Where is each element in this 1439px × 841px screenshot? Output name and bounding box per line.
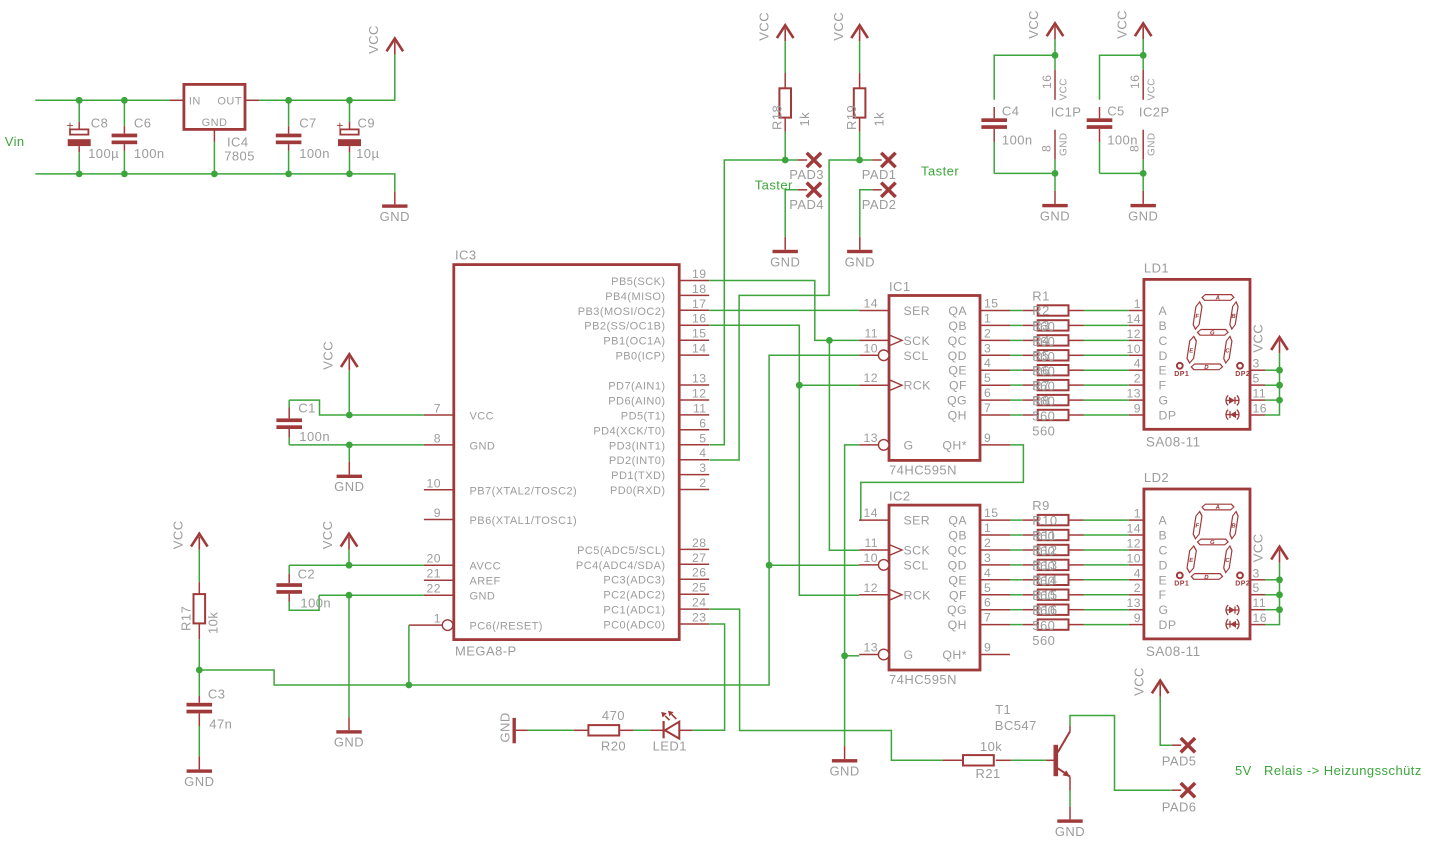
svg-text:18: 18 bbox=[692, 282, 706, 296]
junction C8 top bbox=[76, 97, 83, 104]
svg-text:11: 11 bbox=[1253, 387, 1267, 401]
svg-text:IC3: IC3 bbox=[455, 248, 477, 263]
IC2 pin 3 QD bbox=[948, 551, 1010, 573]
wire PC1 to R21 bbox=[709, 609, 943, 760]
wire VCC to IC3 pin7 bbox=[348, 375, 350, 415]
svg-text:16: 16 bbox=[692, 312, 706, 326]
capacitor C6 100n bbox=[112, 100, 165, 174]
svg-text:T1: T1 bbox=[995, 702, 1011, 717]
svg-text:QE: QE bbox=[948, 364, 967, 378]
IC3 pin 3 PD1(TXD) bbox=[611, 461, 709, 482]
resistor R4 560 bbox=[1010, 350, 1129, 360]
resistor R1 560 bbox=[1010, 305, 1129, 315]
svg-text:IN: IN bbox=[189, 96, 201, 108]
junction GND pin22 bbox=[346, 592, 353, 599]
svg-text:QG: QG bbox=[947, 394, 967, 408]
svg-text:IC1: IC1 bbox=[889, 279, 911, 294]
svg-text:GND: GND bbox=[380, 209, 410, 224]
svg-text:3: 3 bbox=[699, 461, 706, 475]
IC3 pin 20 AVCC bbox=[424, 552, 501, 573]
wire SCK chain to IC2 bbox=[829, 340, 859, 550]
svg-text:QH: QH bbox=[948, 409, 967, 423]
svg-text:C9: C9 bbox=[358, 116, 376, 131]
wire R21 to T1 base bbox=[1011, 759, 1046, 761]
junction reset SCL2 bbox=[766, 562, 773, 569]
IC2 pin 7 QH bbox=[948, 611, 1010, 633]
wire GND IC2P bbox=[1142, 160, 1144, 191]
svg-text:C5: C5 bbox=[1107, 104, 1125, 119]
svg-text:QF: QF bbox=[949, 379, 967, 393]
pad PAD5 bbox=[1162, 738, 1197, 768]
svg-text:4: 4 bbox=[699, 446, 706, 460]
junction C7 top bbox=[285, 97, 292, 104]
svg-text:4: 4 bbox=[984, 356, 991, 370]
label R14 and value bbox=[1032, 573, 1057, 619]
junction Taster1 bbox=[782, 157, 789, 164]
svg-text:12: 12 bbox=[864, 371, 878, 385]
IC3 pin 27 PC4(ADC4/SDA) bbox=[576, 551, 709, 572]
resistor R11 560 bbox=[1010, 545, 1129, 555]
svg-text:R19: R19 bbox=[844, 105, 859, 130]
IC2 pin 1 QB bbox=[948, 521, 1010, 543]
svg-text:PD1(TXD): PD1(TXD) bbox=[611, 470, 665, 482]
svg-text:6: 6 bbox=[984, 596, 991, 610]
junction LD1 pin3 bbox=[1276, 367, 1283, 374]
svg-text:PD6(AIN0): PD6(AIN0) bbox=[608, 396, 665, 408]
svg-text:VCC: VCC bbox=[171, 520, 186, 549]
svg-text:16: 16 bbox=[1128, 75, 1142, 89]
svg-text:16: 16 bbox=[1040, 75, 1054, 89]
svg-text:9: 9 bbox=[984, 641, 991, 655]
svg-text:A: A bbox=[1159, 514, 1168, 528]
svg-text:IC1P: IC1P bbox=[1051, 105, 1082, 120]
wire reset net bbox=[199, 355, 859, 685]
LD2 pin 9 segment DP bbox=[1129, 611, 1177, 632]
microcontroller IC3 MEGA8-P body bbox=[454, 248, 679, 659]
svg-text:7: 7 bbox=[984, 611, 991, 625]
svg-text:VCC: VCC bbox=[470, 411, 495, 423]
svg-text:LD1: LD1 bbox=[1144, 261, 1169, 276]
IC1 pin 5 QF bbox=[949, 371, 1010, 393]
svg-text:F: F bbox=[1159, 379, 1167, 393]
svg-text:IC4: IC4 bbox=[227, 135, 249, 150]
svg-text:1: 1 bbox=[984, 311, 991, 325]
svg-text:100n: 100n bbox=[1002, 133, 1033, 148]
LD1 pin 2 segment F bbox=[1129, 372, 1167, 393]
ground GND enable bbox=[829, 746, 859, 779]
capacitor C8 100u bbox=[67, 100, 120, 174]
svg-text:AVCC: AVCC bbox=[470, 561, 502, 573]
svg-text:R15: R15 bbox=[1032, 588, 1057, 603]
svg-text:PC4(ADC4/SDA): PC4(ADC4/SDA) bbox=[576, 560, 666, 572]
IC3 pin 13 PD7(AIN1) bbox=[608, 372, 709, 393]
svg-text:11: 11 bbox=[1253, 596, 1267, 610]
regulator IC4 7805 bbox=[170, 84, 259, 173]
junction VCC pin7 bbox=[346, 412, 353, 419]
junction VCC IC1P bbox=[1052, 52, 1059, 59]
LD2 internal diode icon 1 bbox=[1226, 605, 1239, 615]
resistor R6 560 bbox=[1010, 380, 1129, 390]
svg-text:DP: DP bbox=[1159, 409, 1177, 423]
svg-text:VCC: VCC bbox=[1251, 533, 1266, 562]
svg-text:B: B bbox=[1159, 319, 1168, 333]
IC3 pin 4 PD2(INT0) bbox=[609, 446, 709, 467]
wire VCC LD1 pins bbox=[1265, 358, 1280, 415]
junction C9 bottom bbox=[346, 171, 353, 178]
wire RCK PB2 to RCK pins bbox=[709, 325, 859, 595]
svg-text:PD0(RXD): PD0(RXD) bbox=[610, 485, 666, 497]
svg-text:DP2: DP2 bbox=[1235, 580, 1250, 587]
svg-text:E: E bbox=[1159, 364, 1168, 378]
svg-text:E: E bbox=[1159, 573, 1168, 587]
IC1 pin 7 QH bbox=[948, 401, 1010, 423]
junction LD2 pin3 bbox=[1276, 576, 1283, 583]
svg-text:R4: R4 bbox=[1032, 333, 1050, 348]
junction LD1 pin11 bbox=[1276, 397, 1283, 404]
LD1 DP1 dot bbox=[1174, 363, 1189, 378]
svg-text:VCC: VCC bbox=[1131, 667, 1146, 696]
svg-text:3: 3 bbox=[984, 551, 991, 565]
IC3 pin 5 PD3(INT1) bbox=[609, 431, 709, 452]
VCC arrow R18 bbox=[756, 12, 793, 47]
LD2 DP2 dot bbox=[1235, 573, 1250, 588]
IC1 pin 6 QG bbox=[947, 386, 1010, 408]
svg-text:GND: GND bbox=[334, 735, 364, 750]
resistor R8 560 bbox=[1010, 410, 1129, 420]
shift register IC1 74HC595N body bbox=[889, 279, 980, 478]
svg-text:VCC: VCC bbox=[756, 12, 771, 41]
svg-text:PC5(ADC5/SCL): PC5(ADC5/SCL) bbox=[577, 545, 665, 557]
svg-text:8: 8 bbox=[434, 431, 441, 445]
LD2 pin 13 segment G bbox=[1127, 596, 1169, 617]
svg-text:16: 16 bbox=[1253, 402, 1267, 416]
svg-text:R10: R10 bbox=[1032, 513, 1057, 528]
pad PAD6 bbox=[1162, 783, 1197, 814]
wire Taster2 net to PD2 bbox=[710, 160, 860, 460]
svg-text:R17: R17 bbox=[178, 606, 193, 631]
svg-text:21: 21 bbox=[427, 567, 441, 581]
svg-text:QA: QA bbox=[948, 514, 967, 528]
svg-text:13: 13 bbox=[864, 431, 878, 445]
IC1 pin 13 G bbox=[859, 431, 913, 453]
svg-text:SER: SER bbox=[904, 514, 931, 528]
svg-text:3: 3 bbox=[984, 341, 991, 355]
svg-text:5: 5 bbox=[984, 581, 991, 595]
LD2 pin 10 segment D bbox=[1127, 551, 1168, 572]
svg-text:SA08-11: SA08-11 bbox=[1146, 435, 1201, 450]
IC3 pin 21 AREF bbox=[424, 567, 501, 588]
IC3 pin 2 PD0(RXD) bbox=[610, 476, 709, 497]
resistor R9 560 bbox=[1010, 515, 1129, 525]
VCC supply arrow bbox=[366, 25, 403, 60]
wire RCK to IC1 pin12 bbox=[799, 384, 859, 386]
junction LD2 pin11 bbox=[1276, 606, 1283, 613]
IC3 pin 18 PB4(MISO) bbox=[605, 282, 709, 303]
LD1 DP2 dot bbox=[1235, 363, 1250, 378]
pad PAD3 bbox=[785, 153, 824, 182]
svg-text:PB7(XTAL2/TOSC2): PB7(XTAL2/TOSC2) bbox=[470, 485, 578, 497]
svg-text:8: 8 bbox=[1040, 145, 1054, 152]
svg-text:PAD4: PAD4 bbox=[789, 197, 824, 212]
LD1 pin 11 right bbox=[1250, 387, 1266, 401]
svg-text:G: G bbox=[1209, 331, 1215, 337]
LED LED1 bbox=[653, 711, 693, 754]
ground GND C3 bbox=[184, 756, 214, 789]
svg-text:10k: 10k bbox=[980, 739, 1002, 754]
wire R20 to GND bbox=[528, 729, 574, 731]
svg-text:GND: GND bbox=[470, 591, 496, 603]
svg-text:5: 5 bbox=[984, 371, 991, 385]
LD1 pin 1 segment A bbox=[1129, 297, 1168, 318]
shift register IC2 74HC595N body bbox=[889, 489, 980, 687]
IC1 pin 1 QB bbox=[948, 311, 1010, 333]
svg-text:14: 14 bbox=[864, 297, 878, 311]
resistor R16 560 bbox=[1010, 619, 1129, 629]
svg-text:13: 13 bbox=[1127, 387, 1141, 401]
svg-text:LED1: LED1 bbox=[653, 739, 687, 754]
svg-text:C8: C8 bbox=[91, 116, 109, 131]
resistor R13 560 bbox=[1010, 575, 1129, 585]
wire GND IC1P bbox=[1054, 160, 1056, 191]
svg-text:2: 2 bbox=[1134, 581, 1141, 595]
IC1 pin 15 QA bbox=[948, 297, 1010, 319]
svg-text:D: D bbox=[1159, 558, 1168, 572]
wire SCK PB5 to SCK pins bbox=[709, 281, 859, 341]
resistor R17 10k bbox=[178, 555, 220, 670]
svg-text:QC: QC bbox=[948, 334, 967, 348]
label R16 and value bbox=[1032, 602, 1057, 648]
junction reset pin1 bbox=[406, 682, 413, 689]
wire G enable chain bbox=[845, 445, 860, 746]
svg-text:R18: R18 bbox=[770, 105, 785, 130]
wire T1 emitter GND bbox=[1069, 791, 1071, 807]
wire GND bottom rail bbox=[35, 174, 395, 192]
capacitor C7 100n bbox=[276, 100, 330, 174]
wire LED1 to R20 bbox=[633, 729, 650, 731]
svg-text:SCL: SCL bbox=[904, 349, 929, 363]
label R9 and value bbox=[1032, 498, 1055, 544]
svg-text:1: 1 bbox=[1134, 297, 1141, 311]
svg-text:1k: 1k bbox=[871, 112, 886, 127]
svg-text:11: 11 bbox=[864, 326, 878, 340]
svg-text:GND: GND bbox=[1147, 132, 1158, 156]
svg-text:1: 1 bbox=[1134, 507, 1141, 521]
junction C6 bottom bbox=[121, 171, 128, 178]
svg-text:PD4(XCK/T0): PD4(XCK/T0) bbox=[593, 425, 665, 437]
svg-text:R8: R8 bbox=[1032, 393, 1050, 408]
svg-text:14: 14 bbox=[864, 506, 878, 520]
wire T1 collector to PAD6 bbox=[1070, 716, 1172, 791]
svg-text:4: 4 bbox=[1134, 357, 1141, 371]
svg-text:VCC: VCC bbox=[1251, 324, 1266, 353]
svg-text:10µ: 10µ bbox=[356, 146, 379, 161]
svg-text:RCK: RCK bbox=[904, 379, 932, 393]
IC1 pin 10 SCL bbox=[859, 341, 929, 363]
junction C7 bottom bbox=[285, 171, 292, 178]
svg-text:28: 28 bbox=[692, 536, 706, 550]
svg-text:13: 13 bbox=[692, 372, 706, 386]
wire VCC IC1P bbox=[1054, 44, 1056, 70]
LD2 pin 11 right bbox=[1250, 596, 1266, 610]
junction LD2 pin5 bbox=[1276, 591, 1283, 598]
LD2 pin 14 segment B bbox=[1127, 522, 1168, 543]
label R4 and value bbox=[1032, 333, 1055, 379]
IC3 pin 24 PC1(ADC1) bbox=[603, 596, 709, 617]
svg-text:1: 1 bbox=[984, 521, 991, 535]
svg-text:PAD3: PAD3 bbox=[789, 167, 824, 182]
svg-text:VCC: VCC bbox=[366, 25, 381, 54]
svg-text:PC3(ADC3): PC3(ADC3) bbox=[603, 575, 665, 587]
VCC arrow R17 bbox=[171, 520, 208, 555]
pad PAD2 bbox=[860, 183, 897, 237]
svg-text:7805: 7805 bbox=[224, 149, 255, 164]
svg-text:QC: QC bbox=[948, 544, 967, 558]
wire VCC to PAD5 bbox=[1160, 702, 1172, 746]
power pin 8 GND IC2P bbox=[1128, 130, 1158, 160]
resistor R15 560 bbox=[1010, 605, 1129, 615]
svg-text:2: 2 bbox=[699, 476, 706, 490]
svg-text:C: C bbox=[1159, 544, 1168, 558]
svg-text:Taster: Taster bbox=[921, 164, 959, 179]
label R5 and value bbox=[1032, 348, 1055, 394]
svg-text:G: G bbox=[1209, 540, 1215, 546]
svg-text:1: 1 bbox=[434, 612, 441, 626]
label R7 and value bbox=[1032, 378, 1055, 424]
junction LD1 pin5 bbox=[1276, 382, 1283, 389]
svg-text:IC2: IC2 bbox=[889, 489, 911, 504]
svg-text:100µ: 100µ bbox=[88, 146, 119, 161]
svg-text:GND: GND bbox=[829, 764, 859, 779]
svg-text:4: 4 bbox=[1134, 566, 1141, 580]
ground GND IC2P bbox=[1128, 191, 1158, 224]
IC1 pin 3 QD bbox=[948, 341, 1010, 363]
svg-text:560: 560 bbox=[1032, 423, 1055, 438]
capacitor C3 47n bbox=[187, 670, 233, 756]
pad PAD1 bbox=[860, 153, 897, 182]
svg-text:DP1: DP1 bbox=[1174, 580, 1189, 587]
svg-text:F: F bbox=[1159, 588, 1167, 602]
ground GND C2 bbox=[334, 717, 364, 750]
svg-text:5: 5 bbox=[1253, 581, 1260, 595]
IC3 pin 16 PB2(SS/OC1B) bbox=[584, 312, 709, 333]
svg-text:SA08-11: SA08-11 bbox=[1146, 644, 1201, 659]
svg-text:23: 23 bbox=[692, 611, 706, 625]
LD2 pin 1 segment A bbox=[1129, 507, 1168, 528]
resistor R20 470 bbox=[574, 708, 634, 754]
LD1 pin 14 segment B bbox=[1127, 312, 1168, 333]
svg-text:PB5(SCK): PB5(SCK) bbox=[611, 276, 665, 288]
LD2 DP1 dot bbox=[1174, 573, 1189, 588]
resistor R10 560 bbox=[1010, 530, 1129, 540]
svg-text:7: 7 bbox=[984, 401, 991, 415]
IC1 pin 9 QH* bbox=[942, 431, 1010, 453]
svg-text:C4: C4 bbox=[1002, 104, 1020, 119]
svg-text:VCC: VCC bbox=[320, 520, 335, 549]
svg-text:R3: R3 bbox=[1032, 318, 1050, 333]
LD1 internal diode icon 2 bbox=[1226, 410, 1239, 420]
svg-text:GND: GND bbox=[184, 774, 214, 789]
LD1 pin 16 right bbox=[1250, 402, 1267, 416]
LD2 pin 12 segment C bbox=[1127, 537, 1168, 558]
svg-text:C3: C3 bbox=[208, 687, 226, 702]
svg-text:DP2: DP2 bbox=[1235, 371, 1250, 378]
label R15 and value bbox=[1032, 588, 1057, 634]
label R3 and value bbox=[1032, 318, 1055, 364]
svg-text:100n: 100n bbox=[299, 146, 330, 161]
svg-text:1k: 1k bbox=[797, 112, 812, 127]
LD2 internal diode icon 2 bbox=[1226, 619, 1239, 629]
svg-text:2: 2 bbox=[984, 326, 991, 340]
IC2 pin 14 SER bbox=[859, 506, 930, 528]
svg-text:D: D bbox=[1159, 349, 1168, 363]
junction RCK IC1 bbox=[796, 382, 803, 389]
svg-text:10: 10 bbox=[427, 476, 441, 490]
IC3 pin 25 PC2(ADC2) bbox=[603, 581, 709, 602]
label R8 and value bbox=[1032, 393, 1055, 439]
svg-text:PB2(SS/OC1B): PB2(SS/OC1B) bbox=[584, 321, 665, 333]
svg-text:E: E bbox=[1189, 558, 1194, 564]
svg-text:SCL: SCL bbox=[904, 558, 929, 572]
svg-text:3: 3 bbox=[1253, 566, 1260, 580]
LD2 pin 16 right bbox=[1250, 611, 1267, 625]
IC1 pin 4 QE bbox=[948, 356, 1010, 378]
svg-text:C6: C6 bbox=[134, 116, 152, 131]
ground GND LED (rotated) bbox=[498, 712, 528, 743]
wire VCC to IC3 pin20 bbox=[348, 555, 350, 565]
svg-text:9: 9 bbox=[1134, 402, 1141, 416]
svg-text:7: 7 bbox=[434, 402, 441, 416]
svg-text:12: 12 bbox=[864, 581, 878, 595]
IC2 pin 12 RCK bbox=[859, 581, 931, 603]
svg-text:E: E bbox=[1189, 349, 1194, 355]
svg-text:14: 14 bbox=[1127, 522, 1141, 536]
svg-text:560: 560 bbox=[1032, 633, 1055, 648]
svg-text:PAD2: PAD2 bbox=[862, 197, 897, 212]
VCC arrow C1 bbox=[321, 341, 358, 376]
svg-text:PC1(ADC1): PC1(ADC1) bbox=[603, 605, 665, 617]
svg-text:2: 2 bbox=[984, 536, 991, 550]
svg-text:12: 12 bbox=[1127, 537, 1141, 551]
IC3 pin 26 PC3(ADC3) bbox=[603, 566, 709, 587]
IC2 pin 5 QF bbox=[949, 581, 1010, 603]
svg-text:R21: R21 bbox=[976, 766, 1001, 781]
label R12 and value bbox=[1032, 543, 1057, 589]
svg-text:PD2(INT0): PD2(INT0) bbox=[609, 455, 666, 467]
IC2 pin 4 QE bbox=[948, 566, 1010, 588]
IC3 pin 8 GND bbox=[424, 431, 495, 452]
IC3 pin 28 PC5(ADC5/SCL) bbox=[577, 536, 709, 557]
svg-text:15: 15 bbox=[984, 297, 998, 311]
svg-text:PD5(T1): PD5(T1) bbox=[621, 410, 666, 422]
svg-text:10k: 10k bbox=[206, 612, 221, 634]
svg-text:27: 27 bbox=[692, 551, 706, 565]
svg-text:OUT: OUT bbox=[217, 96, 242, 108]
IC3 pin 11 PD5(T1) bbox=[621, 401, 709, 422]
wire VCC LD2 pins bbox=[1265, 568, 1280, 625]
svg-text:PC2(ADC2): PC2(ADC2) bbox=[603, 590, 665, 602]
IC3 pin 23 PC0(ADC0) bbox=[603, 611, 709, 632]
svg-text:5V Relais -> Heizungsschütz: 5V Relais -> Heizungsschütz bbox=[1235, 763, 1422, 778]
svg-text:GND: GND bbox=[1128, 208, 1158, 223]
label R2 and value bbox=[1032, 303, 1055, 349]
svg-text:6: 6 bbox=[699, 416, 706, 430]
svg-text:9: 9 bbox=[984, 431, 991, 445]
svg-text:R14: R14 bbox=[1032, 573, 1057, 588]
LD1 internal diode icon 1 bbox=[1226, 395, 1239, 405]
svg-text:GND: GND bbox=[202, 117, 228, 129]
svg-text:G: G bbox=[904, 648, 914, 662]
svg-text:2: 2 bbox=[1134, 372, 1141, 386]
